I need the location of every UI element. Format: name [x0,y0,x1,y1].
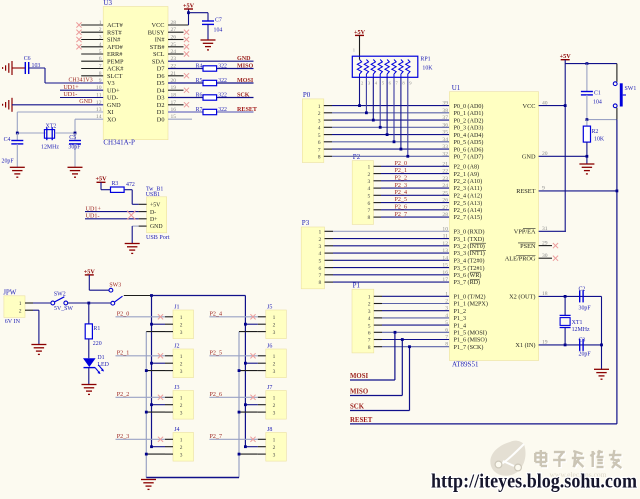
svg-text:AT89S51: AT89S51 [452,361,479,369]
svg-text:VPP/EA: VPP/EA [514,229,536,236]
svg-text:36: 36 [442,122,448,128]
svg-text:D-: D- [150,210,156,216]
svg-text:1: 1 [180,396,183,402]
svg-text:XT1: XT1 [572,320,583,326]
svg-text:P3_1 (TXD): P3_1 (TXD) [454,236,485,243]
svg-text:104: 104 [214,28,223,34]
svg-text:C7: C7 [215,17,222,23]
svg-text:5: 5 [318,133,321,139]
svg-text:R5: R5 [196,78,203,84]
svg-text:+5V: +5V [560,53,572,60]
svg-text:P2_0: P2_0 [117,312,130,318]
svg-text:3: 3 [445,306,448,312]
svg-text:2: 2 [368,172,371,178]
svg-text:UD1+: UD1+ [63,85,79,91]
svg-text:5: 5 [319,259,322,265]
svg-text:UD1-: UD1- [63,92,77,98]
svg-text:32: 32 [442,151,448,157]
svg-text:P1_3: P1_3 [454,316,467,322]
svg-text:C6: C6 [24,56,31,62]
svg-text:33: 33 [442,144,448,150]
svg-text:472: 472 [126,182,135,188]
svg-text:+5V: +5V [150,203,161,209]
svg-text:2: 2 [445,299,448,305]
svg-text:P2_3: P2_3 [117,434,130,440]
svg-text:P2_0: P2_0 [395,161,408,167]
svg-text:30pF: 30pF [579,306,592,312]
svg-text:SW1: SW1 [625,86,637,92]
svg-text:2: 2 [273,361,276,367]
svg-text:C5: C5 [69,135,76,141]
svg-text:1: 1 [273,396,276,402]
svg-text:1: 1 [445,291,448,297]
svg-text:104: 104 [593,100,602,106]
svg-text:P2_1: P2_1 [117,351,130,357]
svg-text:SCK: SCK [237,93,250,99]
svg-text:P2_6: P2_6 [395,205,408,211]
svg-text:J3: J3 [174,385,179,391]
svg-text:20pF: 20pF [2,159,15,165]
svg-text:P2_7: P2_7 [395,212,408,218]
svg-text:30pF: 30pF [68,144,81,150]
svg-text:P1_0 (T/M2): P1_0 (T/M2) [454,294,486,301]
svg-text:4: 4 [445,313,448,319]
svg-text:P2_1 (A9): P2_1 (A9) [454,171,480,178]
svg-text:C4: C4 [4,137,11,143]
svg-text:2: 2 [180,322,183,328]
svg-text:U1: U1 [452,84,461,92]
svg-text:P2_5: P2_5 [210,351,223,357]
svg-text:SLCT: SLCT [107,73,123,80]
svg-text:R3: R3 [112,181,119,187]
svg-text:PSEN: PSEN [520,243,536,250]
svg-text:6: 6 [368,331,371,337]
svg-text:6: 6 [368,201,371,207]
svg-text:GND: GND [237,56,251,62]
svg-text:P0_2 (AD2): P0_2 (AD2) [454,117,484,124]
svg-text:J2: J2 [174,343,179,349]
svg-text:P0_6 (AD6): P0_6 (AD6) [454,146,484,153]
svg-text:R7: R7 [196,107,203,113]
svg-text:JPW: JPW [3,289,17,297]
svg-text:2: 2 [318,111,321,117]
svg-text:P3: P3 [302,219,310,227]
svg-text:J4: J4 [174,427,179,433]
svg-text:4: 4 [319,251,322,257]
svg-text:P2_3 (A11): P2_3 (A11) [454,185,482,192]
svg-text:P2_7: P2_7 [210,434,223,440]
svg-text:7: 7 [445,335,448,341]
svg-text:ALE/PROG: ALE/PROG [505,255,536,262]
svg-text:RESET: RESET [516,188,535,195]
svg-text:P2_0 (A8): P2_0 (A8) [454,164,480,171]
svg-text:1: 1 [368,295,371,301]
svg-text:MISO: MISO [237,64,254,70]
svg-text:XI: XI [107,109,114,116]
svg-text:P0_3 (AD3): P0_3 (AD3) [454,125,484,132]
svg-text:J1: J1 [174,304,179,310]
svg-text:XT2: XT2 [46,124,57,130]
svg-text:2: 2 [368,302,371,308]
svg-text:D2: D2 [157,102,165,109]
svg-text:D1: D1 [157,109,165,116]
svg-text:7: 7 [319,273,322,279]
svg-text:P2_5: P2_5 [395,197,408,203]
svg-text:P3_5 (T2#1): P3_5 (T2#1) [454,265,485,272]
svg-text:UD+: UD+ [107,88,120,95]
svg-text:3: 3 [180,369,183,375]
svg-text:24: 24 [442,183,448,189]
svg-text:MOSI: MOSI [350,373,368,380]
svg-text:SIN#: SIN# [107,37,121,44]
svg-text:P2_3: P2_3 [395,183,408,189]
svg-text:38: 38 [442,108,448,114]
svg-text:UD1+: UD1+ [86,206,102,212]
svg-text:2: 2 [180,445,183,451]
svg-text:R2: R2 [592,129,599,135]
svg-text:P2_2 (A10): P2_2 (A10) [454,178,483,185]
svg-text:R4: R4 [196,64,203,70]
svg-text:P3_6 (WR): P3_6 (WR) [454,272,482,279]
svg-text:13: 13 [442,248,448,254]
svg-text:322: 322 [218,107,227,113]
svg-text:CH341V3: CH341V3 [69,78,93,84]
svg-text:322: 322 [218,93,227,99]
svg-text:22: 22 [442,169,448,175]
svg-text:IN#: IN# [155,37,166,44]
svg-text:2: 2 [273,403,276,409]
svg-text:VCC: VCC [523,103,536,110]
svg-text:8: 8 [368,215,371,221]
svg-text:5: 5 [368,194,371,200]
svg-text:P1_2: P1_2 [454,309,467,315]
svg-text:SW3: SW3 [109,282,121,288]
svg-text:D5: D5 [157,80,165,87]
svg-text:BUSY: BUSY [148,30,165,37]
svg-text:GND: GND [79,99,93,105]
svg-text:1: 1 [180,315,183,321]
svg-text:12MHz: 12MHz [572,327,590,333]
svg-text:1: 1 [19,301,22,307]
svg-text:12: 12 [442,241,448,247]
svg-text:P2_4 (A12): P2_4 (A12) [454,193,483,200]
svg-text:P2_4: P2_4 [395,190,408,196]
svg-text:CH341A-P: CH341A-P [103,138,135,146]
svg-text:MOSI: MOSI [237,78,254,84]
svg-text:4: 4 [318,126,321,132]
svg-text:AFD#: AFD# [107,44,124,51]
svg-text:STB#: STB# [150,44,166,51]
svg-text:35: 35 [442,130,448,136]
svg-text:8: 8 [319,280,322,286]
svg-text:8: 8 [318,155,321,161]
svg-text:D+: D+ [150,217,157,223]
svg-text:5: 5 [368,323,371,329]
svg-text:RESET: RESET [350,417,373,424]
svg-text:7: 7 [318,147,321,153]
svg-text:P2_2: P2_2 [395,176,408,182]
svg-text:220: 220 [93,341,102,347]
svg-text:C2: C2 [579,286,586,292]
svg-text:P3_0 (RXD): P3_0 (RXD) [454,229,485,236]
svg-text:SDA: SDA [152,59,165,66]
svg-text:8: 8 [368,345,371,351]
svg-text:26: 26 [442,198,448,204]
svg-text:3: 3 [368,309,371,315]
svg-text:D4: D4 [157,88,166,95]
svg-text:P0_5 (AD5): P0_5 (AD5) [454,139,484,146]
svg-text:ERR#: ERR# [107,51,123,58]
svg-text:23: 23 [442,176,448,182]
svg-text:P3_3 (INT1): P3_3 (INT1) [454,250,485,257]
svg-text:UD1-: UD1- [86,214,100,220]
svg-text:2: 2 [273,445,276,451]
svg-text:39: 39 [442,101,448,107]
svg-text:P2_6: P2_6 [210,392,223,398]
svg-text:P0_4 (AD4): P0_4 (AD4) [454,132,484,139]
svg-text:4: 4 [368,186,371,192]
svg-text:P2_4: P2_4 [210,312,223,318]
svg-text:P1_7 (SCK): P1_7 (SCK) [454,344,484,351]
svg-text:P0_0 (AD0): P0_0 (AD0) [454,103,484,110]
svg-text:+5V: +5V [84,268,96,275]
svg-text:1: 1 [273,354,276,360]
svg-text:P1_4: P1_4 [454,323,467,329]
svg-text:C1: C1 [594,91,601,97]
svg-text:+5V: +5V [354,29,366,36]
svg-text:D3: D3 [157,95,165,102]
svg-text:SCL: SCL [153,51,165,58]
svg-text:21: 21 [442,161,448,167]
svg-text:3: 3 [318,118,321,124]
svg-text:ACK#: ACK# [107,66,124,73]
svg-text:2: 2 [19,308,22,314]
svg-text:P3_4 (T2#0): P3_4 (T2#0) [454,258,485,265]
svg-text:http://iteyes.blog.sohu.com: http://iteyes.blog.sohu.com [431,471,637,493]
svg-text:2: 2 [180,403,183,409]
svg-text:8: 8 [445,342,448,348]
svg-text:12MHz: 12MHz [41,144,59,150]
svg-text:2: 2 [319,237,322,243]
svg-text:D0: D0 [157,117,165,124]
svg-text:1: 1 [273,438,276,444]
svg-text:10K: 10K [422,66,433,72]
svg-text:3: 3 [180,452,183,458]
svg-text:P2_2: P2_2 [117,392,130,398]
svg-text:1: 1 [368,165,371,171]
svg-text:3: 3 [180,330,183,336]
svg-text:D6: D6 [157,73,165,80]
svg-text:+5V: +5V [183,2,195,9]
svg-text:5V_SW: 5V_SW [54,306,73,312]
svg-text:10: 10 [442,226,448,232]
svg-text:P2_6 (A14): P2_6 (A14) [454,207,483,214]
svg-text:34: 34 [442,137,448,143]
svg-text:3: 3 [180,410,183,416]
svg-text:2: 2 [180,361,183,367]
svg-text:P0_1 (AD1): P0_1 (AD1) [454,110,484,117]
svg-text:17: 17 [442,277,448,283]
svg-text:7: 7 [368,338,371,344]
svg-text:PEMP: PEMP [107,59,124,66]
svg-text:SCK: SCK [350,404,365,411]
svg-text:R1: R1 [93,326,100,332]
svg-text:VCC: VCC [152,22,165,29]
svg-text:GND: GND [150,224,163,230]
svg-text:6: 6 [445,327,448,333]
svg-text:P3_2 (INT0): P3_2 (INT0) [454,243,485,250]
svg-text:1: 1 [180,438,183,444]
svg-text:6: 6 [319,266,322,272]
svg-text:P1_5 (MOSI): P1_5 (MOSI) [454,330,487,337]
svg-text:5: 5 [445,320,448,326]
svg-text:7: 7 [368,208,371,214]
svg-text:11: 11 [443,234,449,240]
svg-text:USB Port: USB Port [146,235,170,241]
svg-text:GND: GND [522,154,536,161]
svg-text:D1: D1 [97,355,104,361]
svg-text:J8: J8 [267,427,272,433]
svg-text:SW2: SW2 [54,292,66,298]
svg-text:322: 322 [218,64,227,70]
svg-text:MISO: MISO [350,389,368,396]
svg-text:1: 1 [180,354,183,360]
svg-text:4: 4 [368,316,371,322]
svg-text:P3_7 (RD): P3_7 (RD) [454,279,481,286]
svg-text:P2_5 (A13): P2_5 (A13) [454,200,483,207]
svg-text:RST#: RST# [107,30,123,37]
svg-text:28: 28 [442,212,448,218]
svg-text:1: 1 [273,315,276,321]
svg-text:20pF: 20pF [579,352,592,358]
svg-text:+5V: +5V [95,176,107,183]
svg-text:P2_1: P2_1 [395,168,408,174]
svg-text:GND: GND [107,102,121,109]
svg-text:USB1: USB1 [146,192,160,198]
svg-text:P2_7 (A15): P2_7 (A15) [454,214,483,221]
svg-text:14: 14 [442,255,448,261]
svg-text:15: 15 [442,263,448,269]
svg-text:3: 3 [273,410,276,416]
svg-text:J6: J6 [267,343,272,349]
svg-text:X2 (OUT): X2 (OUT) [509,294,535,301]
svg-text:D7: D7 [157,66,165,73]
svg-text:2: 2 [273,322,276,328]
svg-text:6V IN: 6V IN [5,319,21,325]
svg-text:P1_6 (MISO): P1_6 (MISO) [454,337,487,344]
svg-text:C3: C3 [579,338,586,344]
svg-text:R6: R6 [196,93,203,99]
svg-text:1: 1 [319,230,322,236]
svg-text:RP1: RP1 [420,56,430,62]
svg-text:3: 3 [273,369,276,375]
svg-text:103: 103 [32,63,41,69]
svg-text:RESET: RESET [237,107,257,113]
svg-text:J5: J5 [267,304,272,310]
svg-text:6: 6 [318,140,321,146]
svg-text:U3: U3 [103,0,112,7]
svg-text:UD-: UD- [107,95,118,102]
svg-text:P0_7 (AD7): P0_7 (AD7) [454,154,484,161]
svg-text:P0: P0 [303,91,311,99]
svg-text:ACT#: ACT# [107,22,124,29]
svg-text:3: 3 [368,179,371,185]
svg-text:P1_1 (M2PX): P1_1 (M2PX) [454,301,488,308]
svg-text:25: 25 [442,190,448,196]
svg-text:3: 3 [319,244,322,250]
svg-text:10K: 10K [594,136,605,142]
svg-text:322: 322 [218,78,227,84]
svg-text:V3: V3 [107,80,115,87]
svg-text:J7: J7 [267,385,272,391]
svg-text:3: 3 [273,330,276,336]
svg-text:37: 37 [442,115,448,121]
svg-text:1: 1 [318,104,321,110]
svg-text:3: 3 [273,452,276,458]
svg-text:16: 16 [442,270,448,276]
svg-text:XO: XO [107,117,117,124]
svg-text:X1 (IN): X1 (IN) [515,342,535,349]
svg-text:27: 27 [442,205,448,211]
